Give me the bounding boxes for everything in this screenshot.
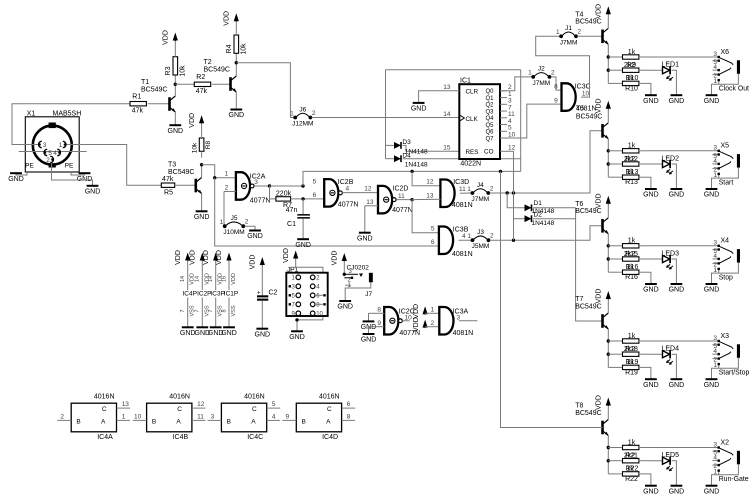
svg-text:4: 4 — [462, 233, 466, 240]
svg-text:B: B — [76, 418, 80, 425]
svg-text:1k: 1k — [628, 238, 636, 245]
svg-text:GND: GND — [247, 233, 263, 240]
svg-text:1k: 1k — [628, 143, 636, 150]
svg-text:C: C — [252, 406, 257, 413]
svg-text:7: 7 — [195, 309, 201, 312]
svg-text:7: 7 — [180, 309, 186, 312]
svg-text:GND: GND — [643, 287, 659, 294]
svg-text:A: A — [251, 418, 256, 425]
svg-text:R9: R9 — [627, 62, 636, 69]
svg-text:Q3: Q3 — [485, 109, 494, 115]
svg-text:VDD: VDD — [596, 98, 603, 113]
svg-text:14: 14 — [443, 111, 451, 118]
svg-text:D3: D3 — [402, 139, 411, 146]
svg-text:IC3P: IC3P — [210, 290, 224, 297]
svg-text:IC1P: IC1P — [224, 290, 238, 297]
svg-text:VDD: VDD — [283, 248, 290, 263]
svg-text:J7MM: J7MM — [532, 80, 550, 87]
svg-text:5: 5 — [272, 401, 276, 408]
svg-text:J2: J2 — [538, 66, 545, 73]
svg-text:R10: R10 — [625, 85, 638, 92]
svg-text:3: 3 — [43, 142, 47, 149]
svg-text:Q1: Q1 — [485, 96, 494, 102]
svg-text:T1: T1 — [141, 79, 149, 86]
svg-text:R13: R13 — [626, 169, 639, 176]
svg-text:IC2D: IC2D — [393, 186, 409, 193]
svg-text:1k: 1k — [628, 49, 636, 56]
svg-text:GND: GND — [221, 330, 237, 337]
svg-text:B: B — [302, 418, 306, 425]
svg-text:2: 2 — [46, 157, 50, 164]
svg-text:T2: T2 — [204, 59, 212, 66]
svg-text:1: 1 — [225, 171, 229, 178]
svg-text:3: 3 — [457, 314, 461, 321]
svg-text:4016N: 4016N — [319, 393, 340, 400]
svg-text:R12: R12 — [625, 156, 638, 163]
svg-text:GND: GND — [643, 488, 659, 495]
svg-text:3: 3 — [713, 335, 717, 342]
svg-text:1N4148: 1N4148 — [405, 162, 428, 169]
svg-text:IC3B: IC3B — [453, 227, 469, 234]
svg-text:VDD: VDD — [190, 250, 197, 265]
svg-text:2: 2 — [431, 320, 435, 327]
svg-text:J1: J1 — [565, 25, 572, 32]
svg-text:13: 13 — [443, 84, 451, 91]
svg-text:6: 6 — [431, 239, 435, 246]
svg-text:9: 9 — [554, 97, 558, 104]
svg-text:VDD: VDD — [596, 193, 603, 208]
svg-text:Clock Out: Clock Out — [719, 86, 749, 93]
svg-text:1: 1 — [556, 29, 560, 36]
svg-text:RES: RES — [466, 149, 479, 156]
svg-text:X4: X4 — [721, 238, 730, 245]
svg-text:12: 12 — [426, 179, 434, 186]
svg-text:J3: J3 — [477, 229, 484, 236]
svg-text:2: 2 — [578, 29, 582, 36]
svg-text:2: 2 — [312, 110, 316, 117]
svg-text:GND: GND — [643, 192, 659, 199]
svg-text:GND: GND — [704, 287, 720, 294]
svg-text:1: 1 — [713, 172, 717, 179]
svg-text:GND: GND — [289, 334, 305, 341]
svg-text:GND: GND — [85, 189, 101, 196]
svg-text:R22: R22 — [626, 466, 639, 473]
svg-text:IC4B: IC4B — [173, 434, 189, 441]
svg-text:IC4A: IC4A — [97, 434, 113, 441]
svg-text:13: 13 — [122, 401, 130, 408]
svg-text:R18: R18 — [625, 346, 638, 353]
svg-text:4: 4 — [272, 414, 276, 421]
svg-text:2: 2 — [490, 233, 494, 240]
svg-text:GND: GND — [357, 235, 373, 242]
svg-text:IC3C: IC3C — [575, 84, 591, 91]
svg-text:R22: R22 — [625, 476, 638, 483]
svg-text:J7MM: J7MM — [560, 39, 578, 46]
svg-text:4081N: 4081N — [576, 105, 597, 112]
svg-text:J10MM: J10MM — [223, 229, 244, 236]
svg-text:8: 8 — [554, 83, 558, 90]
svg-text:PE: PE — [25, 163, 34, 170]
svg-text:R4: R4 — [226, 44, 233, 53]
svg-text:10: 10 — [508, 131, 516, 138]
svg-text:LED3: LED3 — [662, 250, 680, 257]
svg-text:MAB5SH: MAB5SH — [53, 111, 82, 118]
svg-text:GND: GND — [669, 488, 685, 495]
svg-text:A: A — [176, 418, 181, 425]
svg-text:VDD: VDD — [596, 4, 603, 19]
svg-text:4: 4 — [713, 348, 717, 355]
svg-text:IC1: IC1 — [460, 78, 471, 85]
svg-text:C: C — [177, 406, 182, 413]
svg-text:10k: 10k — [180, 65, 187, 77]
svg-text:14: 14 — [195, 276, 201, 282]
svg-text:4077N: 4077N — [338, 201, 359, 208]
svg-text:5: 5 — [431, 226, 435, 233]
svg-text:11: 11 — [459, 186, 466, 193]
svg-text:J6: J6 — [299, 106, 306, 113]
svg-text:IC4P: IC4P — [182, 290, 196, 297]
svg-text:BC549C: BC549C — [204, 67, 230, 74]
svg-text:C: C — [327, 406, 332, 413]
svg-text:Q6: Q6 — [485, 130, 494, 136]
svg-text:C: C — [102, 406, 107, 413]
svg-text:Q5: Q5 — [485, 123, 494, 129]
svg-text:4: 4 — [713, 64, 717, 71]
svg-text:GND: GND — [168, 128, 184, 135]
svg-text:4077N: 4077N — [392, 207, 413, 214]
svg-text:47k: 47k — [162, 176, 174, 183]
svg-text:4077N: 4077N — [250, 197, 271, 204]
svg-text:2: 2 — [245, 219, 249, 226]
svg-text:LED1: LED1 — [662, 62, 680, 69]
svg-text:R5: R5 — [164, 190, 173, 197]
svg-text:A: A — [326, 418, 331, 425]
svg-text:4022N: 4022N — [460, 161, 481, 168]
svg-text:1: 1 — [431, 307, 435, 314]
svg-text:1: 1 — [122, 414, 126, 421]
svg-text:Q7: Q7 — [485, 136, 494, 142]
svg-text:2: 2 — [551, 69, 555, 76]
svg-text:LED4: LED4 — [662, 346, 680, 353]
svg-text:Q2: Q2 — [485, 103, 494, 109]
svg-text:3: 3 — [713, 51, 717, 58]
svg-text:2: 2 — [60, 413, 64, 420]
svg-text:Q0: Q0 — [485, 89, 494, 95]
svg-text:CLK: CLK — [466, 116, 479, 123]
svg-text:J7MM: J7MM — [471, 196, 489, 203]
svg-text:10: 10 — [134, 413, 142, 420]
svg-text:Q4: Q4 — [485, 116, 494, 122]
svg-text:CLR: CLR — [466, 88, 479, 95]
svg-text:1: 1 — [713, 78, 717, 85]
svg-text:A: A — [101, 418, 106, 425]
svg-text:3: 3 — [713, 240, 717, 247]
svg-text:D1: D1 — [534, 200, 543, 207]
svg-text:GND: GND — [669, 382, 685, 389]
svg-text:T3: T3 — [168, 162, 176, 169]
svg-text:4: 4 — [53, 150, 57, 157]
svg-text:Start/Stop: Start/Stop — [719, 370, 750, 377]
svg-text:VDD: VDD — [216, 250, 223, 265]
svg-text:GND: GND — [704, 382, 720, 389]
svg-text:8: 8 — [347, 414, 351, 421]
svg-text:6: 6 — [313, 192, 317, 199]
svg-text:R3: R3 — [165, 66, 172, 75]
svg-text:Run-Gate: Run-Gate — [719, 476, 749, 483]
svg-text:GND: GND — [180, 330, 196, 337]
svg-text:X6: X6 — [721, 49, 730, 56]
svg-text:12: 12 — [364, 186, 372, 193]
svg-text:12: 12 — [508, 145, 516, 152]
svg-text:J7: J7 — [365, 291, 372, 298]
svg-text:X3: X3 — [721, 333, 730, 340]
svg-text:3: 3 — [713, 441, 717, 448]
svg-text:VDD: VDD — [413, 317, 420, 332]
svg-text:X2: X2 — [721, 439, 730, 446]
svg-text:LED2: LED2 — [662, 155, 680, 162]
svg-text:10: 10 — [316, 312, 323, 318]
svg-text:GND: GND — [643, 382, 659, 389]
svg-text:C2: C2 — [269, 290, 278, 297]
svg-text:6: 6 — [347, 401, 351, 408]
svg-text:R16: R16 — [625, 274, 638, 281]
svg-text:47n: 47n — [286, 207, 298, 214]
svg-text:GND: GND — [704, 98, 720, 105]
svg-text:2: 2 — [225, 184, 229, 191]
svg-text:9: 9 — [285, 413, 289, 420]
svg-text:T8: T8 — [575, 403, 583, 410]
svg-text:Stop: Stop — [719, 274, 733, 281]
svg-text:GND: GND — [411, 106, 427, 113]
svg-text:16: 16 — [221, 276, 227, 282]
svg-text:7: 7 — [208, 309, 214, 312]
svg-text:C1: C1 — [287, 221, 296, 228]
svg-text:10k: 10k — [241, 43, 248, 55]
svg-text:15: 15 — [443, 145, 451, 152]
svg-text:47k: 47k — [132, 108, 144, 115]
svg-text:14: 14 — [180, 276, 186, 282]
svg-text:1: 1 — [220, 219, 224, 226]
svg-text:Start: Start — [719, 179, 734, 186]
svg-text:R13: R13 — [625, 179, 638, 186]
svg-text:VDD: VDD — [596, 395, 603, 410]
svg-text:VDD: VDD — [332, 251, 339, 266]
svg-text:1: 1 — [713, 267, 717, 274]
svg-text:B: B — [152, 418, 156, 425]
svg-text:1: 1 — [59, 142, 63, 149]
svg-text:10: 10 — [405, 315, 413, 322]
svg-text:J4: J4 — [477, 182, 484, 189]
svg-text:D4: D4 — [402, 152, 411, 159]
svg-text:VDD: VDD — [163, 30, 170, 45]
svg-text:LED5: LED5 — [662, 452, 680, 459]
svg-text:T7: T7 — [575, 296, 583, 303]
svg-text:1k: 1k — [628, 333, 636, 340]
svg-text:47k: 47k — [196, 88, 208, 95]
svg-text:4016N: 4016N — [94, 393, 115, 400]
svg-text:3: 3 — [713, 145, 717, 152]
svg-text:VDD: VDD — [224, 11, 231, 26]
svg-text:CO: CO — [484, 149, 494, 156]
svg-text:GND: GND — [77, 176, 93, 183]
svg-text:1k: 1k — [628, 439, 636, 446]
svg-text:1: 1 — [467, 233, 471, 240]
svg-text:IC3A: IC3A — [453, 308, 469, 315]
svg-text:GND: GND — [8, 176, 24, 183]
svg-text:GND: GND — [643, 98, 659, 105]
svg-text:GND: GND — [669, 98, 685, 105]
svg-text:1: 1 — [528, 70, 532, 77]
svg-text:220k: 220k — [276, 191, 292, 198]
svg-text:R15: R15 — [625, 251, 638, 258]
svg-text:4: 4 — [713, 455, 717, 462]
svg-text:X5: X5 — [721, 143, 730, 150]
svg-text:PE: PE — [65, 163, 74, 170]
svg-text:GND: GND — [337, 304, 353, 311]
svg-text:4: 4 — [713, 158, 717, 165]
svg-text:4016N: 4016N — [169, 393, 190, 400]
svg-text:4081N: 4081N — [453, 330, 474, 337]
svg-text:2: 2 — [490, 185, 494, 192]
svg-text:VSS: VSS — [231, 305, 237, 316]
svg-text:R2: R2 — [196, 74, 205, 81]
svg-text:13: 13 — [426, 192, 434, 199]
svg-text:9: 9 — [377, 320, 381, 327]
svg-text:4: 4 — [346, 185, 350, 192]
svg-text:10k: 10k — [191, 142, 198, 153]
svg-text:IC4D: IC4D — [322, 434, 338, 441]
svg-text:4: 4 — [713, 253, 717, 260]
svg-text:IC4C: IC4C — [247, 434, 263, 441]
svg-text:R21: R21 — [625, 453, 638, 460]
svg-text:R10: R10 — [626, 75, 639, 82]
svg-text:T6: T6 — [575, 201, 583, 208]
svg-text:4016N: 4016N — [244, 393, 265, 400]
svg-text:VDD: VDD — [413, 304, 420, 319]
svg-text:D2: D2 — [534, 212, 543, 219]
svg-text:GND: GND — [295, 242, 311, 249]
svg-text:8: 8 — [221, 309, 227, 312]
svg-text:GND: GND — [704, 488, 720, 495]
svg-text:GND: GND — [704, 192, 720, 199]
svg-text:VDD: VDD — [175, 250, 182, 265]
svg-text:VDD: VDD — [203, 250, 210, 265]
svg-text:R19: R19 — [625, 369, 638, 376]
svg-text:5: 5 — [313, 178, 317, 185]
svg-text:VDD: VDD — [189, 113, 196, 128]
svg-text:13: 13 — [366, 199, 374, 206]
svg-text:R1: R1 — [132, 94, 141, 101]
svg-text:1: 1 — [290, 110, 294, 117]
svg-text:1: 1 — [467, 186, 471, 193]
svg-text:GND: GND — [669, 287, 685, 294]
svg-text:BC549C: BC549C — [141, 87, 167, 94]
svg-text:4081N: 4081N — [452, 202, 473, 209]
svg-text:8: 8 — [377, 307, 381, 314]
svg-text:R8: R8 — [205, 140, 212, 149]
svg-text:3: 3 — [254, 179, 258, 186]
svg-text:VDD: VDD — [250, 255, 257, 270]
svg-text:1: 1 — [713, 362, 717, 369]
svg-text:B: B — [227, 418, 231, 425]
svg-text:BC549C: BC549C — [168, 169, 194, 176]
svg-text:J5MM: J5MM — [472, 243, 490, 250]
svg-text:IC2P: IC2P — [197, 290, 211, 297]
svg-text:12: 12 — [197, 401, 205, 408]
svg-text:J5: J5 — [231, 215, 238, 222]
svg-text:GND: GND — [361, 337, 377, 344]
svg-text:R16: R16 — [626, 264, 639, 271]
svg-text:GND: GND — [669, 192, 685, 199]
svg-text:X1: X1 — [27, 111, 36, 118]
svg-text:1: 1 — [713, 469, 717, 476]
svg-text:J12MM: J12MM — [292, 121, 313, 128]
svg-text:GND: GND — [194, 214, 210, 221]
svg-text:11: 11 — [197, 414, 204, 421]
svg-text:1N4148: 1N4148 — [532, 220, 555, 227]
svg-text:BC549C: BC549C — [576, 113, 602, 120]
svg-text:R19: R19 — [626, 359, 639, 366]
svg-text:14: 14 — [208, 276, 214, 282]
svg-text:T4: T4 — [575, 11, 583, 18]
svg-text:VDD: VDD — [231, 273, 237, 285]
svg-text:GND: GND — [229, 112, 245, 119]
svg-text:3: 3 — [211, 413, 215, 420]
svg-text:GND: GND — [255, 331, 271, 338]
svg-text:VDD: VDD — [596, 289, 603, 304]
svg-text:4081N: 4081N — [452, 251, 473, 258]
